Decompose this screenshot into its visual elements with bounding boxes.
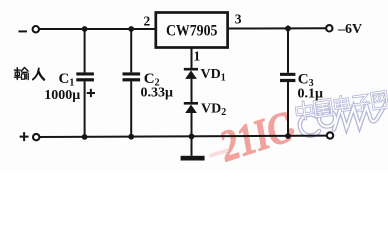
capacitor C1 leads <box>84 29 86 72</box>
svg-text:1: 1 <box>194 49 201 64</box>
diode VD1 <box>184 69 198 79</box>
svg-text:VD2: VD2 <box>201 102 226 119</box>
terminal bottom-right <box>327 132 333 138</box>
circuit ink <box>19 25 334 156</box>
ground <box>181 156 205 161</box>
plus terminal bottom-left <box>33 134 39 140</box>
wire top rail right <box>228 27 327 29</box>
plus sign bottom-left <box>20 132 29 141</box>
wire top rail left <box>39 28 156 30</box>
svg-text:1000μ: 1000μ <box>44 88 80 103</box>
char ru <box>33 68 44 79</box>
output terminal top-right <box>326 25 332 31</box>
junction dots top rail <box>82 26 88 32</box>
wire VD1 to VD2 <box>191 79 193 103</box>
watermark dot <box>288 128 295 135</box>
IC U1 CW7905 box <box>156 13 228 48</box>
svg-text:–6V: –6V <box>337 22 362 37</box>
watermark com cursive <box>300 104 386 136</box>
watermark 21IC.com 中国电子网 <box>211 90 388 171</box>
svg-text:0.1μ: 0.1μ <box>298 87 324 102</box>
wire VD2 to ground <box>191 113 193 156</box>
diode VD2 <box>184 103 198 113</box>
capacitor C1 polarity plus <box>87 89 95 97</box>
watermark 中国电子网 <box>296 90 388 119</box>
junction dots bottom rail <box>82 134 88 140</box>
minus input label <box>19 30 28 32</box>
input terminal top-left <box>33 26 39 32</box>
char zi <box>352 95 370 112</box>
char guo <box>314 99 332 117</box>
capacitor C2 plates <box>123 72 141 75</box>
svg-text:VD1: VD1 <box>201 67 226 84</box>
wire bottom rail <box>39 136 327 137</box>
svg-text:0.33μ: 0.33μ <box>141 86 174 101</box>
watermark 2 tail wisp <box>211 151 227 156</box>
char shu <box>15 68 29 80</box>
diode branch wire pin1 to VD1 <box>191 48 193 70</box>
svg-text:CW7905: CW7905 <box>166 23 218 40</box>
svg-text:2: 2 <box>144 14 151 29</box>
char dian <box>334 96 349 112</box>
capacitor C3 leads <box>287 28 289 72</box>
svg-text:3: 3 <box>235 11 242 26</box>
char wang <box>372 91 388 109</box>
char zhong <box>296 101 313 120</box>
svg-text:C1: C1 <box>59 71 75 89</box>
capacitor C3 plates <box>280 73 295 76</box>
capacitor C2 leads <box>130 29 132 72</box>
label shuru (input) <box>15 68 45 80</box>
capacitor C1 plates <box>76 72 94 75</box>
